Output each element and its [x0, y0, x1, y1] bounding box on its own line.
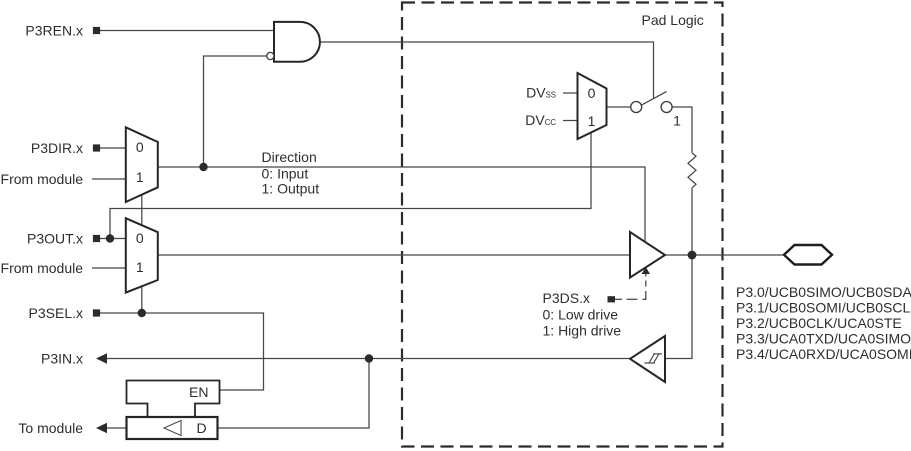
svg-text:P3IN.x: P3IN.x [41, 351, 83, 367]
svg-text:D: D [196, 420, 206, 436]
svg-text:1: Output: 1: Output [262, 181, 320, 197]
svg-text:P3.0/UCB0SIMO/UCB0SDA: P3.0/UCB0SIMO/UCB0SDA [736, 284, 911, 300]
svg-text:0: 0 [136, 230, 144, 246]
svg-text:0: Input: 0: Input [262, 166, 309, 182]
svg-text:P3REN.x: P3REN.x [25, 23, 83, 39]
svg-text:1: High drive: 1: High drive [543, 323, 622, 339]
svg-text:0: Low drive: 0: Low drive [543, 307, 619, 323]
svg-text:To module: To module [18, 420, 83, 436]
svg-text:P3DS.x: P3DS.x [543, 290, 590, 306]
svg-text:P3.2/UCB0CLK/UCA0STE: P3.2/UCB0CLK/UCA0STE [736, 315, 902, 331]
svg-text:P3.1/UCB0SOMI/UCB0SCL: P3.1/UCB0SOMI/UCB0SCL [736, 300, 910, 316]
svg-text:1: 1 [136, 259, 144, 275]
svg-text:1: 1 [673, 113, 681, 129]
svg-text:P3.4/UCA0RXD/UCA0SOMI: P3.4/UCA0RXD/UCA0SOMI [736, 346, 911, 362]
svg-text:1: 1 [136, 169, 144, 185]
svg-text:1: 1 [588, 113, 596, 129]
svg-text:P3.3/UCA0TXD/UCA0SIMO: P3.3/UCA0TXD/UCA0SIMO [736, 331, 911, 347]
svg-text:EN: EN [189, 384, 208, 400]
svg-text:P3SEL.x: P3SEL.x [29, 305, 83, 321]
svg-text:From module: From module [1, 171, 84, 187]
svg-text:Pad Logic: Pad Logic [642, 12, 704, 28]
svg-text:P3DIR.x: P3DIR.x [31, 140, 83, 156]
svg-text:Direction: Direction [262, 149, 317, 165]
svg-text:From module: From module [1, 260, 84, 276]
svg-text:0: 0 [588, 85, 596, 101]
svg-text:P3OUT.x: P3OUT.x [27, 231, 83, 247]
svg-text:0: 0 [136, 139, 144, 155]
